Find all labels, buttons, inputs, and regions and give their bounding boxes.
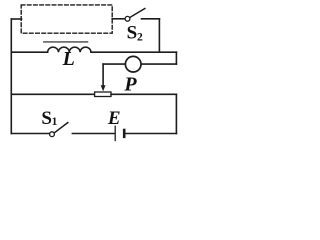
switch S1 blade: [54, 123, 68, 133]
svg-text:P: P: [123, 74, 137, 96]
svg-text:E: E: [107, 108, 121, 129]
switch S2 blade: [130, 9, 145, 18]
wire meter right lead: [142, 63, 177, 65]
rheostat body: [95, 92, 111, 97]
label E: [107, 108, 121, 129]
label L: [62, 48, 75, 70]
wire slider arrow vertical: [102, 64, 104, 85]
wire middle bus left segment: [11, 51, 47, 53]
wire middle bus right segment: [91, 51, 176, 53]
switch S1 pivot: [50, 132, 55, 137]
battery E short plate: [123, 130, 126, 137]
wire bottom left segment: [11, 133, 49, 135]
wire left-bus to dashed box: [11, 18, 21, 20]
meter P: [125, 56, 141, 72]
svg-text:1: 1: [52, 116, 58, 128]
switch S2 pivot: [125, 16, 130, 21]
svg-text:2: 2: [137, 32, 143, 44]
dashed box (component under test): [21, 5, 112, 33]
inductor L iron core bar: [44, 41, 88, 43]
svg-text:S: S: [41, 108, 52, 129]
label S1: [41, 108, 57, 129]
wire dashed box to switch S2: [112, 18, 125, 20]
wire battery to right vertical: [126, 133, 177, 135]
wire S2 right terminal: [142, 18, 160, 20]
wire left vertical bus: [10, 19, 12, 134]
slider arrowhead: [101, 85, 106, 91]
wire S1 to battery: [72, 133, 114, 135]
svg-text:S: S: [127, 23, 138, 44]
battery E long plate: [114, 126, 116, 140]
wire S2 down to middle bus: [158, 19, 160, 52]
wire lower bus left segment: [11, 93, 94, 95]
wire meter left lead: [103, 63, 125, 65]
label P: [123, 74, 137, 96]
wire bus hook down to meter: [175, 52, 177, 64]
svg-text:L: L: [62, 48, 75, 70]
inductor L coil: [48, 47, 91, 52]
wire right vertical (rheostat to battery): [175, 94, 177, 133]
label S2: [127, 23, 143, 44]
wire lower bus right segment: [111, 93, 176, 95]
